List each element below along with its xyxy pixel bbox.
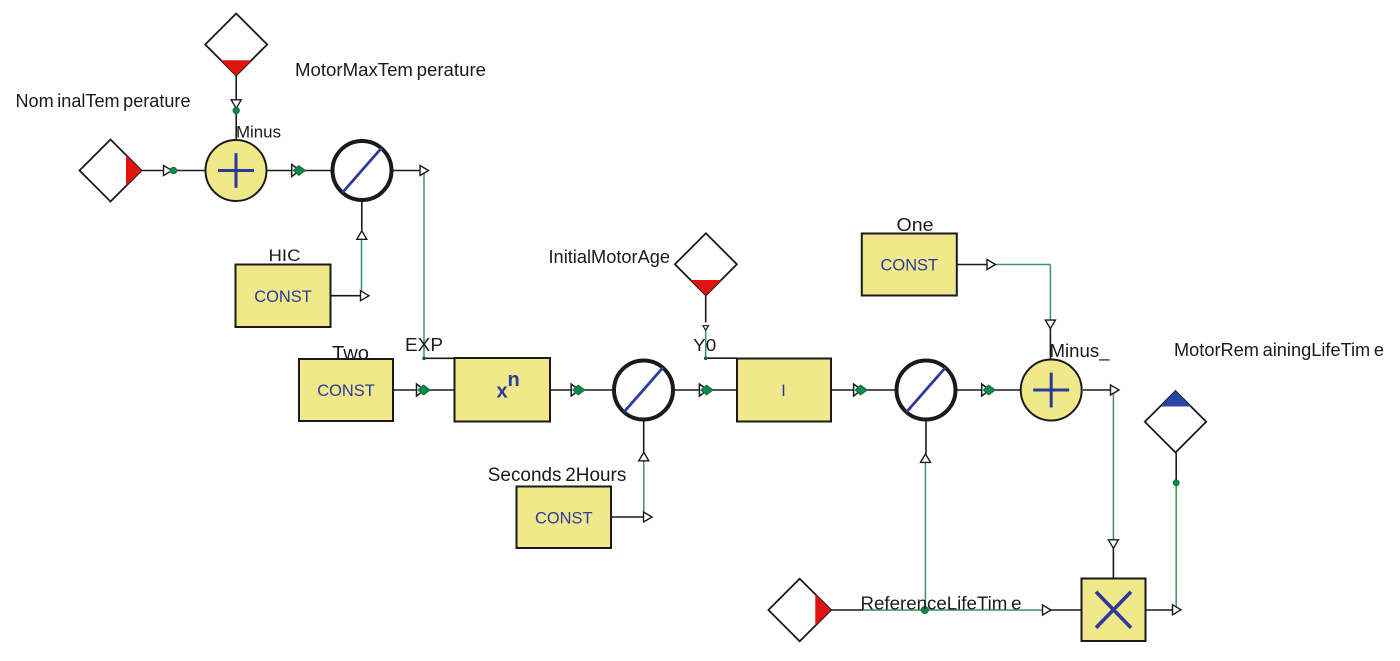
svg-text:CONST: CONST: [317, 382, 375, 400]
svg-text:Minus_: Minus_: [1050, 341, 1111, 362]
svg-text:I: I: [781, 381, 786, 400]
svg-text:Nom inalTem perature: Nom inalTem perature: [16, 91, 191, 111]
svg-text:n: n: [508, 369, 520, 391]
svg-text:CONST: CONST: [535, 510, 593, 528]
svg-text:HIC: HIC: [269, 246, 301, 265]
svg-text:ReferenceLifeTim e: ReferenceLifeTim e: [861, 593, 1022, 614]
svg-text:Y0: Y0: [693, 335, 716, 355]
svg-text:InitialMotorAge: InitialMotorAge: [549, 247, 671, 267]
svg-text:EXP: EXP: [405, 335, 443, 355]
svg-text:x: x: [497, 380, 508, 402]
svg-text:CONST: CONST: [254, 288, 312, 306]
svg-text:One: One: [897, 214, 934, 235]
svg-text:CONST: CONST: [881, 257, 939, 275]
svg-text:Seconds 2Hours: Seconds 2Hours: [488, 465, 627, 486]
svg-text:MotorRem ainingLifeTim e: MotorRem ainingLifeTim e: [1174, 339, 1384, 360]
svg-text:Minus: Minus: [236, 123, 281, 141]
svg-text:MotorMaxTem perature: MotorMaxTem perature: [295, 60, 486, 80]
svg-text:Two: Two: [332, 343, 369, 364]
